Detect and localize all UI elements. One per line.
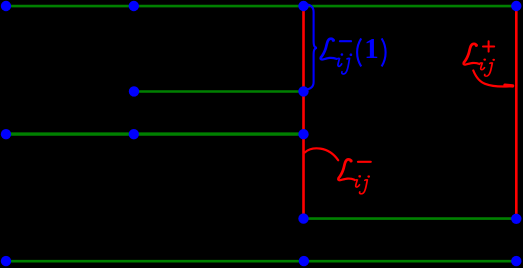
svg-text:1: 1 [364,33,379,65]
